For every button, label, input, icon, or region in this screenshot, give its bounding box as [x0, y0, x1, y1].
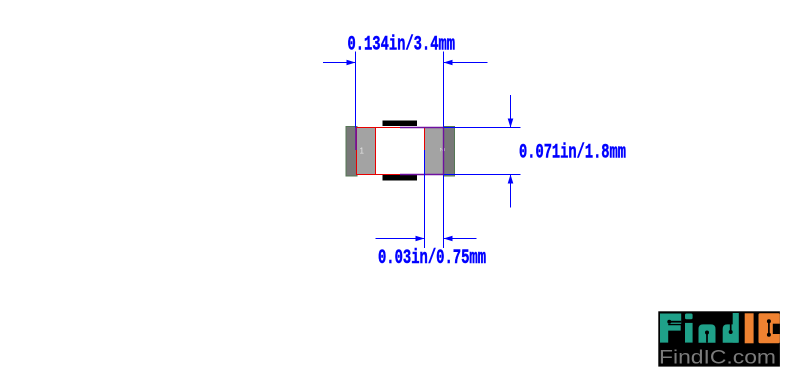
- body marking bar top (black): [383, 121, 418, 127]
- right dimension extension line top (purple overlap over red): [400, 127, 444, 129]
- logo letter d stem: [733, 313, 739, 343]
- logo letter n: [699, 324, 716, 342]
- logo letter F circuit cut: [669, 321, 681, 323]
- top dimension extension line left: [355, 52, 357, 128]
- body marking bar bottom (black): [383, 175, 418, 181]
- top/bottom shared extension line right: [443, 52, 445, 128]
- right dimension extension line top (blue): [444, 127, 521, 129]
- right dimension arrow line top: [510, 95, 512, 128]
- svg-text:0.071in/1.8mm: 0.071in/1.8mm: [519, 142, 626, 165]
- bottom dimension arrowhead left (points right): [416, 236, 425, 242]
- svg-text:0.134in/3.4mm: 0.134in/3.4mm: [348, 34, 456, 57]
- top dimension arrowhead left (points right): [347, 60, 356, 66]
- top dimension arrow line left: [323, 62, 356, 64]
- logo letter C opening: [773, 324, 780, 334]
- bottom dimension arrow line left: [376, 238, 425, 240]
- logo letter n circuit cut: [706, 334, 708, 343]
- logo letter C (orange): [759, 313, 780, 343]
- logo letter i stem: [685, 323, 693, 343]
- logo letter F: [660, 314, 681, 343]
- pad 2 inner edge (red): [424, 128, 426, 151]
- top dimension arrow line right: [444, 62, 488, 64]
- top dimension arrowhead right (points left): [444, 60, 453, 66]
- right dimension extension line bottom (blue): [444, 174, 521, 176]
- logo letter d circuit cut: [730, 324, 732, 332]
- bottom dimension arrow line right: [444, 238, 477, 240]
- terminal end cap right (dark gray): [444, 127, 455, 177]
- right dimension arrowhead bottom (points up): [508, 175, 514, 184]
- logo letter I (orange): [745, 313, 754, 343]
- extension line right lower part: [443, 175, 445, 249]
- right dimension extension line bottom (purple overlap over red): [400, 174, 444, 176]
- logo background box: [658, 311, 780, 366]
- svg-text:FindIC.com: FindIC.com: [659, 348, 776, 369]
- bottom dimension extension line left: [424, 150, 426, 248]
- top dimension extension line left over pad (purple overlap): [355, 128, 357, 151]
- logo letter d bowl: [723, 324, 738, 342]
- right dimension arrow line bottom: [510, 175, 512, 208]
- extension line right over body (purple overlap): [443, 128, 445, 175]
- terminal end cap left (dark gray): [346, 127, 357, 177]
- right dimension arrowhead top (points down): [508, 119, 514, 128]
- svg-text:0.03in/0.75mm: 0.03in/0.75mm: [378, 247, 486, 270]
- svg-text:2: 2: [438, 148, 447, 152]
- component body outline (red): [357, 128, 444, 175]
- pad 1 (light gray): [357, 128, 376, 175]
- svg-text:1: 1: [360, 147, 365, 156]
- logo letter i dot: [685, 314, 693, 320]
- pad 1 inner edge (red): [375, 128, 377, 175]
- logo letter C circuit cut: [768, 321, 770, 335]
- bottom dimension arrowhead right (points left): [444, 236, 453, 242]
- pad 2 (light gray): [425, 128, 444, 175]
